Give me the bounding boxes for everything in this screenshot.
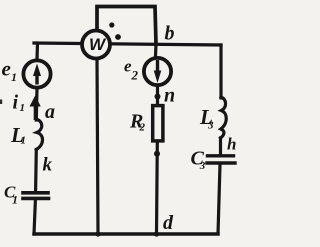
svg-text:a: a bbox=[45, 101, 55, 123]
svg-text:2: 2 bbox=[131, 68, 139, 83]
svg-text:1: 1 bbox=[20, 102, 26, 114]
svg-text:h: h bbox=[227, 135, 236, 154]
svg-text:b: b bbox=[165, 22, 175, 44]
svg-text:i: i bbox=[13, 92, 19, 114]
svg-text:d: d bbox=[163, 212, 174, 234]
svg-text:e: e bbox=[2, 57, 11, 81]
svg-text:2: 2 bbox=[139, 122, 146, 134]
svg-text:1: 1 bbox=[12, 193, 18, 207]
svg-text:3: 3 bbox=[199, 160, 206, 172]
svg-text:1: 1 bbox=[21, 135, 27, 147]
svg-text:1: 1 bbox=[11, 70, 17, 84]
svg-text:n: n bbox=[164, 85, 175, 107]
svg-text:W: W bbox=[89, 35, 107, 54]
svg-text:k: k bbox=[43, 155, 53, 176]
svg-text:3: 3 bbox=[207, 120, 214, 132]
